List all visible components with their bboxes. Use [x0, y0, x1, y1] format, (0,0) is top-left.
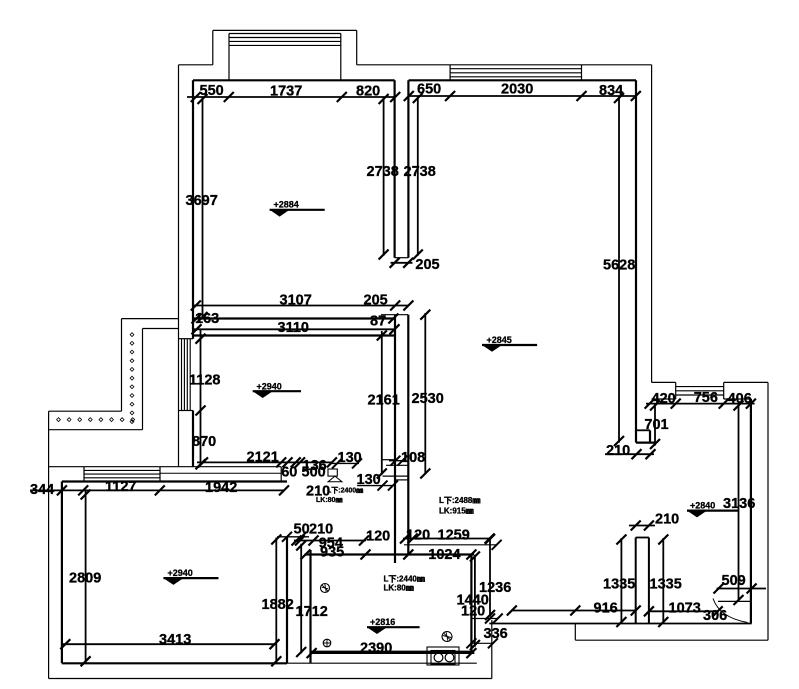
svg-text:87: 87 — [370, 314, 386, 330]
svg-text:870: 870 — [192, 434, 216, 450]
svg-text:916: 916 — [594, 601, 618, 617]
svg-text:701: 701 — [644, 417, 668, 433]
bottom-left room right wall below door opening — [286, 537, 288, 664]
wall between top rooms left face — [394, 80, 396, 257]
svg-text:1236: 1236 — [479, 580, 511, 596]
dimension 344/1127/1942 — [30, 489, 285, 491]
dimension 1712 vertical — [300, 544, 302, 654]
dimension 420/756/406 — [646, 403, 755, 405]
svg-text:1335: 1335 — [650, 577, 682, 593]
top-right window left jamb — [449, 65, 451, 81]
entry door leaf and swing — [718, 600, 751, 602]
kitchen right wall ledge — [471, 618, 497, 620]
svg-text:205: 205 — [364, 293, 388, 309]
bottom-left room left wall inner face — [61, 482, 63, 664]
svg-text:406: 406 — [728, 391, 752, 407]
wall stub between entry openings — [636, 537, 649, 539]
far right outer wall — [767, 382, 769, 640]
svg-text:1335: 1335 — [603, 577, 635, 593]
svg-text:120: 120 — [406, 528, 430, 544]
outer wall toward right window — [652, 381, 676, 383]
svg-text:3107: 3107 — [280, 293, 312, 309]
middle-left room top wall inner face — [193, 334, 395, 336]
bay window left side wall — [212, 30, 214, 64]
svg-text:756: 756 — [694, 390, 718, 406]
svg-text:1712: 1712 — [296, 604, 328, 620]
bay window right jamb — [340, 34, 342, 81]
top-left room top wall inner face — [193, 79, 395, 81]
dimension 3413 — [62, 643, 276, 645]
svg-text:120: 120 — [366, 529, 390, 545]
svg-text:+2940: +2940 — [168, 568, 193, 578]
kitchen sink — [427, 647, 459, 665]
bottom-left window left jamb — [83, 467, 85, 482]
dimension 210 below living room — [605, 453, 654, 455]
wall line between mid and bottom rooms — [49, 466, 282, 468]
svg-text:LK:80㎜: LK:80㎜ — [384, 584, 414, 593]
dimension 336 — [466, 638, 476, 648]
svg-text:+2840: +2840 — [690, 501, 715, 511]
dimension 3136 vertical — [738, 404, 740, 602]
wall line at corridor — [395, 479, 408, 481]
svg-text:1073: 1073 — [669, 601, 701, 617]
svg-text:L下:2400㎜: L下:2400㎜ — [327, 487, 363, 495]
pocket door line a — [381, 459, 395, 461]
svg-text:130: 130 — [338, 450, 362, 466]
dimension 2390 — [310, 652, 474, 654]
outer wall step right of kitchen — [491, 620, 493, 679]
dimension 3107/205 — [194, 305, 410, 307]
inner wall right of right window — [724, 398, 751, 400]
svg-text:205: 205 — [415, 257, 439, 273]
left mid window bottom cap — [179, 410, 194, 412]
svg-text:344: 344 — [30, 482, 54, 498]
entry corridor bottom inner wall — [489, 623, 751, 625]
svg-text:834: 834 — [599, 83, 623, 99]
dimension 120/1259 — [403, 538, 491, 540]
dimension 210 at wall stub — [629, 525, 655, 527]
bottom-left room bottom wall inner face — [62, 662, 287, 664]
svg-text:650: 650 — [417, 82, 441, 98]
svg-text:50: 50 — [294, 522, 310, 538]
middle room floor wall line — [383, 475, 409, 477]
entry hall right wall inner face — [750, 399, 752, 624]
svg-text:820: 820 — [356, 84, 380, 100]
wall between top rooms right face — [407, 80, 409, 257]
svg-text:120: 120 — [461, 604, 485, 620]
svg-text:L下:2440㎜: L下:2440㎜ — [384, 575, 425, 584]
dimension 3697 vertical — [202, 97, 204, 319]
svg-text:210: 210 — [606, 443, 630, 459]
dimension 1073 — [649, 610, 718, 612]
svg-text:+2816: +2816 — [370, 617, 395, 627]
svg-text:1737: 1737 — [270, 84, 302, 100]
svg-text:2738: 2738 — [367, 164, 399, 180]
top outer wall right of bay — [357, 64, 652, 66]
left outer wall upper section — [178, 65, 180, 467]
svg-text:108: 108 — [401, 450, 425, 466]
svg-text:935: 935 — [320, 545, 344, 561]
svg-text:1024: 1024 — [428, 547, 460, 563]
insulated band inner horizontal — [49, 429, 143, 431]
svg-text:1128: 1128 — [189, 373, 220, 389]
left mid window top cap — [179, 338, 194, 340]
svg-text:5628: 5628 — [603, 258, 635, 274]
wall cap below door opening — [381, 314, 408, 316]
dimension 701 vertical — [654, 404, 656, 446]
top-left room left wall inner face upper — [192, 80, 194, 338]
living room top wall inner face — [409, 79, 636, 81]
inner wall left of right window — [652, 398, 676, 400]
svg-text:3110: 3110 — [278, 320, 309, 336]
kitchen left wall inner face — [309, 550, 311, 663]
right outer wall upper section — [651, 65, 653, 383]
kitchen bottom wall inner face — [311, 651, 472, 653]
svg-text:1882: 1882 — [262, 597, 294, 613]
dimension 509 — [717, 588, 766, 590]
svg-text:1127: 1127 — [105, 479, 136, 495]
svg-text:130: 130 — [357, 472, 381, 488]
svg-text:306: 306 — [703, 608, 727, 624]
kitchen bottom wall outer line — [287, 662, 477, 664]
svg-text:500: 500 — [302, 465, 326, 481]
wall jog near room corner — [280, 467, 282, 482]
svg-text:2121: 2121 — [247, 450, 279, 466]
top-right window right jamb — [581, 65, 583, 81]
outer wall step near entry — [574, 624, 576, 641]
dimension 120 mini kitchen — [485, 614, 495, 624]
dimension line at bedroom door jamb — [277, 536, 309, 538]
left wall inner face lower — [192, 411, 194, 467]
top outer wall left of bay — [179, 64, 213, 66]
svg-text:2530: 2530 — [412, 391, 444, 407]
dimension 2161 vertical — [381, 331, 383, 475]
dimension 130 b — [357, 485, 393, 487]
wall end cap at door opening — [395, 257, 409, 259]
kitchen wall line 336 — [471, 642, 493, 644]
svg-text:+2884: +2884 — [274, 200, 299, 210]
kitchen top wall line — [305, 553, 475, 555]
living room right wall inner face — [635, 80, 637, 442]
svg-text:+2845: +2845 — [487, 335, 512, 345]
middle wall left face lower section — [394, 315, 396, 563]
svg-text:LK:80㎜: LK:80㎜ — [316, 497, 342, 504]
living room wall end box top — [636, 429, 650, 431]
dimension 1882 vertical — [275, 538, 277, 664]
svg-text:210: 210 — [655, 512, 679, 528]
dimension 205 between top rooms — [391, 262, 413, 264]
insulated band outer top — [122, 318, 179, 320]
wardrobe line — [160, 472, 281, 474]
bay window right side wall — [356, 30, 358, 64]
bay window left jamb — [228, 34, 230, 81]
svg-text:2809: 2809 — [69, 571, 101, 587]
svg-text:550: 550 — [200, 83, 224, 99]
right window bottom jamb — [723, 382, 725, 399]
pocket door line b — [386, 464, 408, 466]
svg-text:336: 336 — [484, 626, 508, 642]
dimension 2530 vertical — [424, 313, 426, 474]
right window top jamb — [675, 382, 677, 399]
top-left room bottom wall line — [193, 317, 395, 319]
dimension 2738 left — [383, 97, 385, 256]
svg-text:163: 163 — [195, 311, 219, 327]
bottom-left window (1127) — [84, 469, 160, 471]
insulation hatch dots — [57, 333, 135, 424]
left outer wall lower section — [48, 411, 50, 678]
svg-text:1259: 1259 — [438, 528, 470, 544]
svg-text:509: 509 — [722, 573, 746, 589]
svg-text:3413: 3413 — [159, 632, 191, 648]
svg-text:L下:2488㎜: L下:2488㎜ — [439, 496, 480, 505]
svg-text:1942: 1942 — [205, 480, 237, 496]
svg-text:60: 60 — [281, 465, 297, 481]
living room wall corner return — [636, 442, 655, 444]
bottom-left room top wall inner face — [62, 480, 287, 482]
bottom-left window right jamb — [159, 467, 161, 482]
dimension 1128/870 vertical — [200, 329, 202, 464]
insulated band outer horizontal — [49, 410, 122, 412]
svg-text:2030: 2030 — [501, 82, 533, 98]
outer wall right of right window — [724, 381, 768, 383]
bay window glazing — [229, 33, 341, 35]
svg-text:420: 420 — [652, 391, 676, 407]
dimension 916 — [512, 610, 636, 612]
dimension 50/210 kitchen door — [294, 540, 366, 542]
svg-text:2390: 2390 — [360, 641, 392, 657]
door leaf symbol middle room — [328, 469, 337, 476]
corridor line toward entry — [404, 544, 497, 546]
insulated band inner top — [143, 328, 179, 330]
dimension 2738 right — [417, 96, 419, 256]
dimension 5628 vertical — [618, 96, 620, 443]
dimension 2809 vertical — [85, 490, 87, 663]
svg-text:2161: 2161 — [368, 393, 400, 409]
dimension 1335 right — [662, 538, 664, 624]
bottom outer wall right section — [575, 639, 768, 641]
floor drain symbol 1 — [321, 584, 330, 593]
insulated band outer vertical — [121, 319, 123, 412]
right side window glazing — [676, 386, 724, 388]
floor drain symbol 3 — [323, 639, 331, 647]
left mid window (vertical hatch) — [181, 339, 183, 411]
dimension 3110 (163/87 line) — [194, 328, 396, 330]
dimension line 550/1737/820 — [187, 96, 395, 98]
middle wall right face lower section — [407, 315, 409, 555]
dimension line 650/2030/834 — [409, 95, 637, 97]
bottom outer wall left section — [49, 678, 492, 680]
dimension 1236 vertical — [489, 537, 491, 616]
dimension 108 mini — [389, 460, 402, 462]
living room wall end box right side — [649, 430, 651, 442]
dimension 2121 — [197, 461, 332, 463]
floor drain symbol 2 — [442, 632, 452, 642]
dimension 935 ticks on kitchen top wall — [301, 550, 311, 560]
svg-text:+2940: +2940 — [257, 381, 282, 391]
insulated band inner vertical — [142, 329, 144, 430]
top-right window glazing — [450, 68, 581, 70]
svg-text:2738: 2738 — [404, 164, 436, 180]
bay window outer top wall — [213, 29, 357, 31]
dimension 130 a — [331, 462, 359, 464]
dimension 1335 left — [620, 538, 622, 624]
svg-text:3697: 3697 — [186, 193, 218, 209]
kitchen right wall inner face — [470, 555, 472, 652]
dimension 1440 vertical — [474, 555, 476, 647]
svg-text:LK:915㎜: LK:915㎜ — [439, 507, 474, 516]
